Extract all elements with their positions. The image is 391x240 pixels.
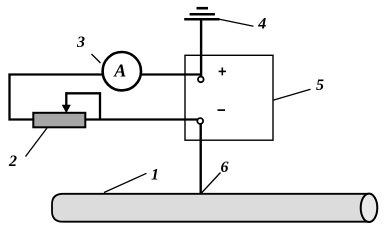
svg-text:1: 1 [151, 167, 159, 184]
svg-text:4: 4 [257, 16, 266, 33]
svg-text:5: 5 [316, 77, 324, 94]
svg-text:2: 2 [8, 153, 17, 170]
svg-text:3: 3 [76, 34, 85, 51]
svg-text:A: A [113, 61, 126, 81]
svg-text:6: 6 [221, 159, 229, 176]
